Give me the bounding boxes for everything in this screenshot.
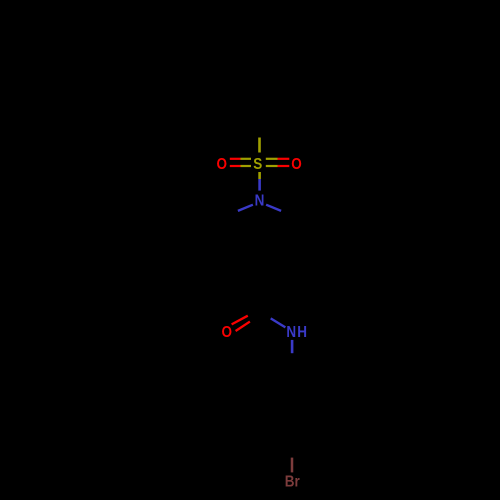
svg-text:N: N xyxy=(286,324,296,341)
wire: amide C-N half-bond (blue) xyxy=(271,318,286,327)
wire: S-N bond, sulfur half xyxy=(258,172,261,179)
svg-text:O: O xyxy=(216,156,227,173)
wire: S=O left double bond, red halves xyxy=(230,158,241,160)
wire: S=O left double bond, sulfur halves xyxy=(241,158,252,160)
wire: N-C6 half-bond (blue, down-right) xyxy=(266,205,281,211)
wire: S-N bond, nitrogen half xyxy=(258,179,261,191)
svg-text:O: O xyxy=(222,324,233,341)
wire: N-aryl half-bond (blue, vertical) xyxy=(291,340,294,353)
wire: C4-Br half-bond (bromine colored, vertical) xyxy=(291,458,294,473)
wire: phenyl C1 to S half-bond (sulfur colored) xyxy=(258,138,261,153)
svg-text:N: N xyxy=(255,192,265,209)
wire: S=O right double bond, sulfur halves xyxy=(266,158,278,160)
svg-text:O: O xyxy=(291,156,302,173)
wire: amide C=O double bond, red halves xyxy=(232,316,248,325)
svg-text:S: S xyxy=(253,156,262,173)
wire: N-C2 half-bond (blue, down-left) xyxy=(238,205,253,211)
svg-text:H: H xyxy=(297,324,307,341)
wire: S=O right double bond, red halves xyxy=(278,158,290,160)
svg-text:Br: Br xyxy=(285,474,300,491)
